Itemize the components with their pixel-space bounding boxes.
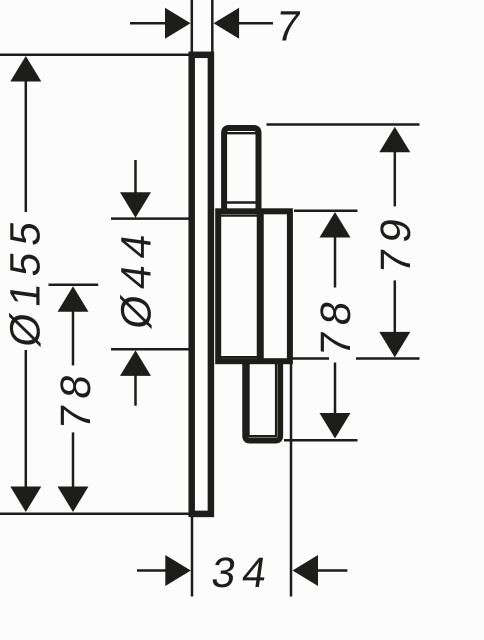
dim 44: upper arrowhead pointing down [120, 192, 151, 218]
dim 34: left extension line [191, 517, 194, 597]
svg-text:79: 79 [373, 209, 420, 277]
dim 7: left arrowhead [165, 8, 191, 39]
svg-text:34: 34 [209, 550, 277, 597]
svg-text:7: 7 [273, 4, 310, 51]
dim 78 left: line lower segment [72, 432, 75, 489]
dim 7: right extension line [211, 0, 214, 52]
dim 155: bottom extension line [0, 513, 192, 516]
dim 78 mid: line upper segment [334, 236, 337, 288]
dim 79: bottom extension line right part [356, 357, 420, 360]
top handle base line [227, 201, 256, 203]
dim 79: top extension line [267, 123, 420, 126]
dim 34: right tail [316, 569, 347, 572]
dim 34: left tail [137, 569, 168, 572]
dim 7: left tail [130, 22, 166, 25]
dim 7: right tail [238, 22, 273, 25]
dim 44: upper tail [134, 160, 137, 194]
dim 78 left: top tick line [49, 283, 99, 286]
bottom handle inner left line [248, 363, 250, 437]
dim 78 mid: bottom extension line [284, 439, 358, 442]
bottom handle inner bottom line [248, 435, 278, 438]
dim 34: right arrowhead [293, 555, 319, 586]
dim 155: line upper segment [25, 79, 28, 212]
body inner bottom line [221, 356, 258, 358]
bottom handle outline [245, 361, 280, 441]
dim 78 mid: bottom arrowhead [320, 413, 351, 439]
dim 79: bottom extension line left part [292, 357, 330, 360]
dim 78 mid: top extension line [294, 209, 358, 212]
dim 7: left extension line [191, 0, 194, 52]
body mid vertical edge [257, 211, 264, 361]
dim 7: right arrowhead [214, 8, 240, 39]
dim 34: left arrowhead [165, 555, 191, 586]
dim 155: top arrowhead [10, 56, 41, 82]
dim 78 mid: top arrowhead [320, 212, 351, 238]
dim 78 left: bottom arrowhead [58, 487, 89, 513]
dim 155: bottom arrowhead [10, 487, 41, 513]
top handle outline [224, 128, 258, 211]
svg-text:78: 78 [53, 365, 100, 433]
dim 34: right extension line [290, 359, 293, 597]
bottom handle inner right line [275, 363, 277, 437]
svg-text:78: 78 [313, 291, 360, 359]
dim 79: line lower segment [394, 280, 397, 333]
top handle inner face line [227, 132, 256, 134]
svg-text:Ø44: Ø44 [114, 224, 161, 332]
dim 79: top arrowhead [379, 127, 410, 153]
dim 44: bottom extension line [111, 348, 190, 351]
body escutcheon outline [218, 211, 290, 361]
dim 44: lower tail [134, 374, 137, 406]
dim 44: lower arrowhead pointing up [120, 350, 151, 376]
dim 155: top extension line [0, 54, 192, 57]
wall plate outline [192, 55, 211, 514]
dim 44: top extension line [111, 217, 190, 220]
svg-text:Ø155: Ø155 [3, 211, 50, 350]
dim 79: bottom arrowhead [379, 332, 410, 358]
dim 155: line lower segment [25, 350, 28, 489]
dim 78 left: top arrowhead [58, 286, 89, 312]
dim 78 mid: line lower segment [334, 363, 337, 415]
dim 78 left: line upper segment [72, 310, 75, 365]
body inner top line [221, 215, 258, 217]
dim 79: line upper segment [394, 151, 397, 206]
